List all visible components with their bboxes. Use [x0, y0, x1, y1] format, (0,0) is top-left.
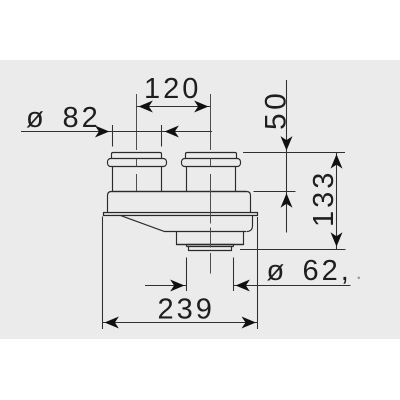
svg-text:133: 133 — [308, 170, 340, 227]
svg-text:82: 82 — [63, 102, 101, 134]
svg-text:62,: 62, — [303, 255, 352, 287]
svg-text:239: 239 — [158, 294, 215, 326]
svg-text:120: 120 — [144, 73, 201, 105]
svg-text:ø: ø — [26, 102, 47, 134]
svg-text:50: 50 — [259, 90, 292, 130]
svg-text:ø: ø — [267, 255, 288, 287]
